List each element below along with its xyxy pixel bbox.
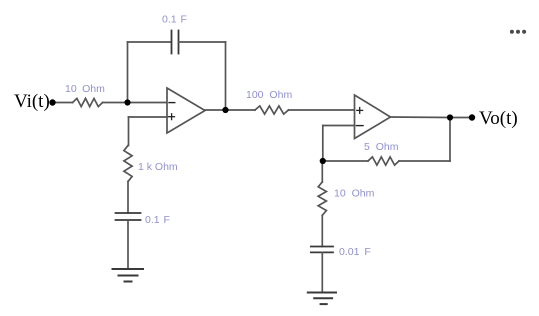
svg-text:1 k Ohm: 1 k Ohm — [138, 161, 178, 173]
svg-text:10 Ohm: 10 Ohm — [65, 83, 105, 95]
svg-text:100 Ohm: 100 Ohm — [246, 89, 292, 101]
svg-text:0.01 F: 0.01 F — [339, 246, 371, 258]
svg-text:0.1 F: 0.1 F — [145, 214, 170, 226]
svg-text:Vi(t): Vi(t) — [14, 91, 50, 112]
svg-text:5 Ohm: 5 Ohm — [364, 141, 399, 153]
svg-text:10 Ohm: 10 Ohm — [334, 188, 375, 200]
svg-text:Vo(t): Vo(t) — [479, 108, 518, 129]
svg-text:0.1 F: 0.1 F — [162, 14, 187, 26]
